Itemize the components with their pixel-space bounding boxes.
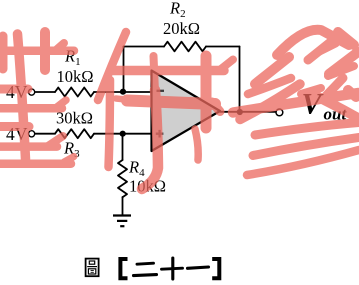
wire R4 branch vertical: [122, 134, 124, 160]
watermark char3 mid-right unit3 diagonal: [323, 78, 343, 99]
watermark char3 mid-left triangle stroke: [255, 57, 289, 84]
wire to ground: [122, 197, 124, 216]
wire top feedback loop horizontal: [124, 46, 240, 48]
watermark char3 left sweep: [240, 84, 300, 120]
watermark char1 bar 4 short: [0, 122, 29, 131]
watermark char3 mid-right unit1 tick: [315, 44, 336, 55]
watermark char1 bar 1: [0, 47, 74, 56]
watermark char2 right leg: [195, 129, 198, 160]
watermark char3 horizontal bar: [233, 93, 358, 113]
watermark char2 long bar main: [127, 101, 215, 105]
watermark char2 upper bar flick: [221, 60, 233, 70]
wire left vertical of feedback loop: [123, 47, 125, 92]
watermark char1 bar 2 short: [0, 85, 28, 94]
caption char 一: [188, 267, 209, 268]
wire inverting input: [35, 91, 152, 93]
watermark char3 mid-right unit3 tick: [301, 88, 321, 94]
watermark char2 radical diagonal: [98, 32, 126, 100]
caption bracket 【: [120, 259, 127, 278]
terminal input 1 open circle: [29, 89, 35, 95]
watermark char1 vertical V2: [40, 32, 50, 70]
wire non-inverting input: [35, 133, 152, 135]
terminal output open circle: [276, 109, 283, 116]
watermark char2 long bar: [116, 99, 132, 101]
watermark char3 shu stroke 2: [253, 138, 359, 156]
op-amp plus marker: [156, 130, 164, 138]
caption bracket 】: [212, 259, 219, 278]
watermark char3 shu stroke 1: [255, 123, 359, 136]
wire right vertical of feedback loop: [239, 47, 241, 113]
watermark char1 bar 5 flick: [48, 136, 63, 146]
watermark char1 left edge band: [0, 36, 8, 69]
svg-text:20kΩ: 20kΩ: [163, 19, 200, 38]
watermark char1 bar 3 flick: [57, 100, 66, 107]
resistor R1 zigzag: [55, 88, 94, 97]
resistor R4 zigzag: [118, 160, 127, 197]
node dot junction output: [237, 109, 243, 115]
watermark char3 shu stroke 3: [247, 150, 359, 175]
watermark char1 bar 3: [0, 104, 62, 113]
watermark char3 top right tick: [338, 32, 354, 45]
watermark char1 vertical V1: [18, 34, 26, 159]
watermark char2 upper bar: [111, 66, 224, 76]
watermark char2 long bar end press: [212, 102, 220, 112]
watermark char3 right sweep: [310, 93, 358, 118]
svg-text:10kΩ: 10kΩ: [57, 67, 94, 86]
watermark char2 left vertical upper: [154, 56, 156, 92]
watermark char3 top arc: [277, 30, 349, 55]
op-amp U1 triangle: [152, 71, 221, 152]
watermark char3 mid-right unit2 tick: [328, 66, 354, 76]
watermark char2 radical vertical: [109, 80, 111, 167]
svg-text:R2: R2: [169, 0, 186, 20]
watermark char1 bar 6 bottom: [0, 160, 71, 169]
watermark char3 mid-right unit1 diagonal: [308, 40, 333, 60]
watermark char2 right vertical: [201, 56, 212, 128]
resistor R3 zigzag: [55, 129, 94, 138]
caption char 圖: [86, 259, 99, 277]
resistor R2 zigzag: [164, 42, 206, 52]
caption char 二: [137, 263, 154, 264]
watermark char3 mid-left tick: [248, 78, 291, 94]
terminal input 2 open circle: [29, 131, 35, 137]
op-amp minus marker: [157, 90, 165, 92]
ground symbol: [113, 216, 131, 227]
wire output: [220, 111, 276, 113]
node dot junction non-inverting: [120, 131, 126, 137]
caption char 十: [162, 268, 183, 269]
watermark char3 mid-right unit2 diagonal: [329, 52, 358, 74]
watermark char1 bar 5: [0, 142, 57, 151]
watermark char1 bar 1 flick: [56, 43, 64, 50]
node dot junction inverting: [120, 89, 126, 95]
watermark char1 bar 6 flick: [64, 157, 74, 163]
watermark char3 right press blob: [348, 90, 356, 97]
watermark char2 left vertical with hook: [142, 90, 158, 189]
